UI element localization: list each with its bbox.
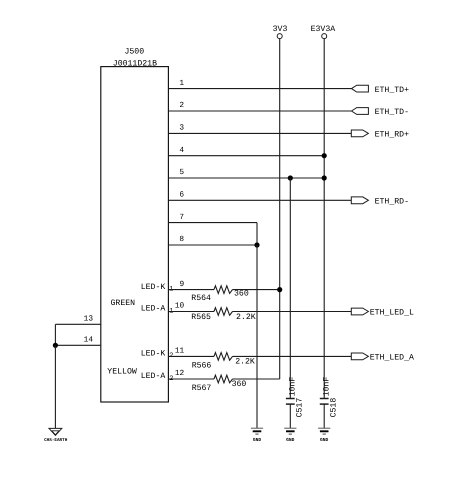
wire pin 12 to resistor — [168, 378, 214, 380]
wire pin5 branch down to C517 — [289, 178, 291, 399]
wire pin 7 — [168, 222, 257, 224]
svg-text:CHS-EARTH: CHS-EARTH — [44, 438, 68, 443]
svg-text:8: 8 — [179, 235, 184, 244]
wire pin 3 — [168, 132, 351, 134]
resistor R567 360 — [192, 375, 247, 393]
wire pin 14 — [55, 344, 100, 346]
wire pin 10 to resistor — [168, 311, 214, 313]
wire pin 13 — [55, 323, 100, 325]
power symbol 3V3 — [273, 25, 288, 39]
wire pin 1 — [168, 88, 351, 90]
junction pin5/E3V3A — [322, 175, 327, 180]
svg-text:9: 9 — [180, 280, 185, 289]
svg-text:C517: C517 — [296, 398, 305, 418]
wire C518 to GND — [323, 404, 325, 428]
wire E3V3A vertical — [323, 39, 325, 399]
svg-text:11: 11 — [175, 347, 185, 356]
svg-text:2: 2 — [179, 101, 184, 110]
net tag ETH_TD+ — [352, 85, 369, 92]
wire pin 5 — [168, 177, 324, 179]
wire C517 to GND — [289, 404, 291, 428]
wire pin 2 — [168, 110, 351, 112]
resistor R564 360 — [191, 286, 249, 303]
wire pin 9 to resistor — [168, 289, 214, 291]
capacitor C517 10nF — [286, 377, 305, 418]
wire R566 to ETH_LED_A — [233, 355, 352, 357]
wire pin 4 — [168, 155, 324, 157]
ground GND (right, C518) — [318, 428, 330, 443]
resistor R565 2.2K — [191, 308, 255, 322]
svg-text:6: 6 — [179, 191, 184, 200]
svg-text:C518: C518 — [329, 398, 338, 418]
junction pin13/pin14 — [53, 343, 58, 348]
ground GND (left, pin7/8) — [251, 428, 263, 443]
wire down to chassis earth — [54, 345, 56, 428]
svg-text:4: 4 — [179, 146, 184, 155]
svg-text:10nF: 10nF — [289, 377, 298, 397]
svg-text:13: 13 — [84, 315, 94, 324]
svg-text:5: 5 — [179, 168, 184, 177]
svg-text:GREEN: GREEN — [111, 299, 136, 308]
junction pin7/pin8 — [254, 242, 259, 247]
svg-text:LED-K: LED-K — [141, 350, 166, 359]
wire 3V3 vertical — [279, 39, 281, 379]
svg-text:ETH_TD+: ETH_TD+ — [375, 86, 409, 95]
ground GND (middle, C517) — [284, 428, 296, 443]
junction pin4/E3V3A — [322, 153, 327, 158]
svg-text:ETH_LED_A: ETH_LED_A — [370, 354, 414, 363]
svg-text:R565: R565 — [191, 313, 211, 322]
power symbol E3V3A — [311, 25, 336, 39]
svg-text:12: 12 — [175, 369, 185, 378]
junction R564/3V3 — [277, 287, 282, 292]
net tag ETH_RD+ — [351, 130, 368, 137]
svg-text:ETH_TD-: ETH_TD- — [375, 108, 409, 117]
wire pin7 to pin8 — [256, 223, 258, 245]
svg-text:J500: J500 — [124, 48, 144, 57]
net tag ETH_TD- — [352, 108, 369, 115]
svg-text:ETH_RD+: ETH_RD+ — [375, 131, 409, 140]
wire pin 8 — [168, 244, 257, 246]
svg-text:LED-A: LED-A — [141, 372, 166, 381]
capacitor C518 10nF — [320, 377, 339, 418]
junction pin5/C517 branch — [288, 175, 293, 180]
wire pin8 junction down to GND — [256, 245, 258, 428]
connector J500 box — [101, 67, 169, 402]
resistor R566 2.2K — [192, 353, 255, 371]
svg-text:360: 360 — [232, 380, 247, 389]
svg-text:R566: R566 — [192, 361, 212, 370]
svg-text:14: 14 — [84, 336, 94, 345]
svg-text:ETH_LED_L: ETH_LED_L — [370, 309, 414, 318]
svg-text:GND: GND — [253, 437, 262, 443]
svg-text:360: 360 — [234, 289, 249, 298]
svg-text:1: 1 — [179, 79, 184, 88]
wire pin 6 — [168, 199, 351, 201]
wire R567 to 3V3 corner — [233, 378, 280, 380]
net tag ETH_LED_L — [351, 308, 368, 315]
chassis earth symbol CHS-EARTH — [44, 428, 68, 442]
svg-text:R567: R567 — [192, 384, 212, 393]
svg-text:LED-A: LED-A — [141, 305, 166, 314]
svg-text:GND: GND — [320, 437, 329, 443]
svg-text:ETH_RD-: ETH_RD- — [375, 198, 409, 207]
svg-text:E3V3A: E3V3A — [311, 25, 336, 34]
svg-text:2.2K: 2.2K — [235, 357, 255, 366]
wire pin13 down to pin14 — [54, 324, 56, 345]
svg-text:2.2K: 2.2K — [236, 313, 256, 322]
net tag ETH_LED_A — [351, 353, 368, 360]
svg-text:YELLOW: YELLOW — [107, 367, 137, 376]
wire pin 11 to resistor — [168, 355, 214, 357]
svg-text:LED-K: LED-K — [141, 283, 166, 292]
svg-text:R564: R564 — [191, 294, 211, 303]
svg-text:7: 7 — [179, 213, 184, 222]
svg-text:GND: GND — [286, 437, 295, 443]
wire R564 to 3V3 — [233, 289, 280, 291]
svg-text:3V3: 3V3 — [273, 25, 288, 34]
svg-text:J0011D21B: J0011D21B — [113, 59, 157, 68]
wire R565 to ETH_LED_L — [233, 311, 352, 313]
svg-text:10nF: 10nF — [323, 377, 332, 397]
net tag ETH_RD- — [351, 197, 368, 204]
svg-text:3: 3 — [179, 124, 184, 133]
svg-text:10: 10 — [175, 302, 185, 311]
